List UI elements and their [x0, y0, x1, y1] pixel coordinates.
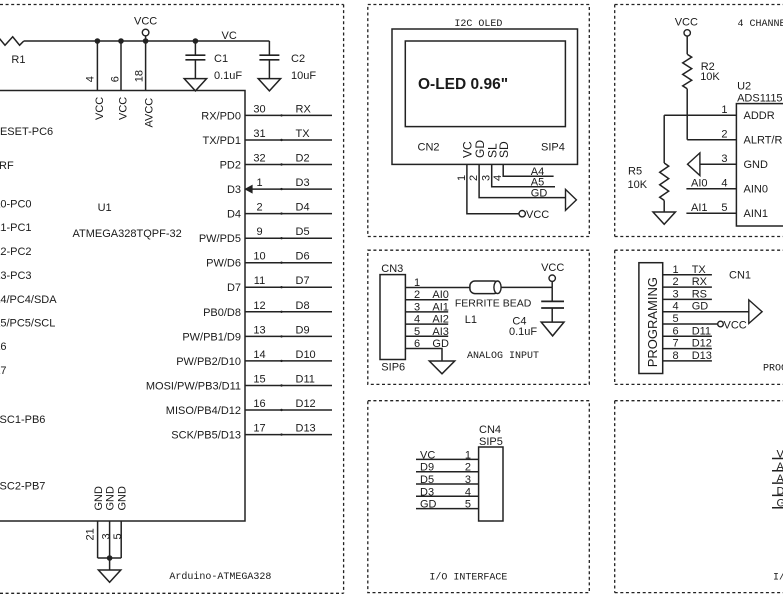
wire CN3 pin3 (AI1)	[405, 311, 448, 313]
wire gnd tie	[98, 557, 122, 559]
wire CN1 pin8 (D13)	[663, 360, 712, 362]
port arrow GD (CN1, right)	[749, 300, 762, 324]
svg-text:D3: D3	[227, 184, 241, 196]
power flag VCC (R2)	[684, 30, 690, 36]
wire CN3 pin1 to ferrite bead	[405, 287, 470, 289]
wire CN2 pin3 (A5)	[492, 164, 555, 186]
svg-text:VC: VC	[222, 30, 237, 42]
svg-text:A1-PC1: A1-PC1	[0, 222, 32, 234]
svg-text:D7: D7	[227, 282, 241, 294]
svg-text:4: 4	[673, 301, 679, 313]
svg-text:4: 4	[492, 175, 504, 181]
wire CN3 pin2 (AI0)	[405, 299, 448, 301]
svg-text:C2: C2	[291, 53, 305, 65]
svg-text:3: 3	[673, 288, 679, 300]
svg-text:D5: D5	[296, 226, 310, 238]
svg-text:CN2: CN2	[418, 142, 440, 154]
svg-text:ADS1115: ADS1115	[737, 92, 782, 104]
svg-text:CN1: CN1	[729, 270, 751, 282]
wire CN3 pin6 (GD) to ground	[405, 349, 442, 362]
svg-text:8: 8	[673, 350, 679, 362]
svg-text:VCC: VCC	[675, 16, 698, 28]
svg-text:AI3: AI3	[432, 326, 449, 338]
wire pin 21 stub (GND)	[97, 521, 99, 558]
wire pin 32 (D2)	[245, 164, 332, 166]
wire pin 12 (D8)	[245, 311, 332, 313]
power flag VCC (top of U1)	[142, 29, 149, 36]
svg-text:MOSI/PW/PB3/D11: MOSI/PW/PB3/D11	[146, 381, 241, 393]
wire CN4 pin2 (D9)	[416, 471, 479, 473]
wire pin 30 (RX)	[245, 114, 332, 116]
svg-text:1: 1	[256, 177, 262, 189]
svg-text:30: 30	[253, 103, 265, 115]
svg-text:GND: GND	[116, 486, 128, 511]
wire R2 to pin2	[686, 89, 688, 140]
wire pin3 (GND)	[700, 163, 737, 165]
connector CN4 body	[479, 447, 503, 521]
wire pin 16 (D12)	[245, 409, 332, 411]
svg-text:RF: RF	[0, 160, 14, 172]
svg-text:SIP4: SIP4	[541, 142, 565, 154]
wire CN2 pin2 (GD)	[479, 164, 565, 197]
svg-text:AI0: AI0	[432, 289, 449, 301]
wire pin 4 stub	[96, 41, 98, 91]
svg-text:Arduino-ATMEGA328: Arduino-ATMEGA328	[169, 571, 271, 583]
wire CN1 pin2 (RX)	[663, 286, 712, 288]
ground (C4)	[541, 322, 564, 336]
svg-text:L1: L1	[465, 314, 477, 326]
wire pin 13 (D9)	[245, 335, 332, 337]
svg-text:PW/PB2/D10: PW/PB2/D10	[176, 356, 241, 368]
svg-text:SIP5: SIP5	[479, 436, 503, 448]
svg-text:R5: R5	[628, 166, 642, 178]
resistor R2	[683, 54, 692, 89]
svg-text:18: 18	[133, 70, 145, 82]
svg-text:A2-PC2: A2-PC2	[0, 246, 32, 258]
svg-text:AI1: AI1	[432, 301, 449, 313]
svg-text:O-LED 0.96": O-LED 0.96"	[418, 76, 508, 93]
svg-text:D4: D4	[296, 202, 310, 214]
svg-text:A7: A7	[0, 365, 6, 377]
wire bead to VCC/C4	[501, 286, 552, 288]
section border 4 CHANNEL ADC (dashed)	[615, 4, 783, 6]
wire pin 11 (D7)	[245, 286, 332, 288]
svg-text:3: 3	[721, 153, 727, 165]
power flag VCC (C4)	[549, 275, 555, 281]
svg-text:ALRT/RDY: ALRT/RDY	[744, 135, 783, 147]
svg-text:D11: D11	[692, 325, 711, 337]
svg-text:RX: RX	[296, 103, 312, 115]
connector CN1 body	[639, 263, 663, 374]
svg-text:10: 10	[253, 251, 265, 263]
wire pin 3 stub (GND)	[109, 521, 111, 558]
svg-text:PD2: PD2	[220, 160, 241, 172]
junction on pin 13 wire	[280, 335, 282, 337]
svg-text:A5: A5	[531, 177, 544, 189]
junction on pin 32 wire	[280, 163, 282, 165]
svg-text:11: 11	[254, 275, 265, 287]
svg-text:PROGRAMING: PROGRAMING	[645, 277, 660, 367]
svg-text:R1: R1	[11, 54, 25, 66]
svg-text:ANALOG INPUT: ANALOG INPUT	[467, 351, 539, 362]
svg-text:AIN0: AIN0	[744, 184, 768, 196]
junction on pin 1 wire	[280, 188, 282, 190]
svg-text:2: 2	[465, 462, 471, 474]
svg-text:D6: D6	[296, 251, 310, 263]
svg-text:U1: U1	[98, 202, 112, 214]
wire CN3 pin4 (AI2)	[405, 323, 448, 325]
junction on pin 15 wire	[280, 384, 282, 386]
svg-text:21: 21	[85, 528, 97, 540]
wire CN4 pin4 (D3)	[416, 495, 479, 497]
junction on pin 11 wire	[280, 286, 282, 288]
svg-text:TX: TX	[692, 264, 707, 276]
svg-text:VC: VC	[420, 449, 435, 461]
section border I/O INTERFACE (dashed)	[368, 401, 590, 593]
wire pin4 (AIN0)	[686, 188, 736, 190]
svg-text:OSC2-PB7: OSC2-PB7	[0, 481, 45, 493]
wire CN4 pin1 (VC)	[416, 458, 479, 460]
svg-text:3: 3	[465, 474, 471, 486]
wire pin 1 (D3)	[245, 188, 332, 190]
ferrite bead L1	[470, 281, 499, 294]
ic U1 body (ATMEGA328, left edge off-canvas)	[0, 91, 245, 522]
svg-text:10K: 10K	[700, 71, 720, 83]
svg-text:GND: GND	[744, 159, 769, 171]
svg-text:4: 4	[414, 314, 420, 326]
svg-text:D3: D3	[296, 177, 310, 189]
svg-text:CN4: CN4	[479, 424, 501, 436]
wire CN1 pin1 (TX)	[663, 274, 712, 276]
svg-text:31: 31	[253, 128, 265, 140]
svg-text:5: 5	[465, 499, 471, 511]
svg-text:A5/PC5/SCL: A5/PC5/SCL	[0, 318, 55, 330]
svg-text:C1: C1	[214, 53, 228, 65]
wire pin 9 (D5)	[245, 237, 332, 239]
ground (R5)	[663, 200, 665, 212]
wire pin 15 (D11)	[245, 385, 332, 387]
svg-text:U2: U2	[737, 80, 751, 92]
junction on pin 30 wire	[280, 114, 282, 116]
svg-text:D3: D3	[420, 486, 434, 498]
svg-text:AIN1: AIN1	[744, 208, 768, 220]
svg-text:SCK/PB5/D13: SCK/PB5/D13	[171, 430, 241, 442]
junction on pin 9 wire	[280, 237, 282, 239]
svg-text:4: 4	[85, 76, 97, 82]
svg-text:D10: D10	[296, 349, 316, 361]
svg-text:GD: GD	[692, 301, 709, 313]
capacitor C2	[268, 41, 270, 55]
svg-text:A5: A5	[777, 473, 783, 485]
svg-text:ADDR: ADDR	[744, 110, 775, 122]
wire pin 5 stub (GND)	[120, 521, 122, 558]
svg-text:D5: D5	[420, 474, 434, 486]
svg-text:D9: D9	[296, 324, 310, 336]
wire D2 (right edge, clipped)	[772, 494, 783, 496]
wire CN2 pin1 to VCC	[467, 164, 519, 213]
svg-text:3: 3	[481, 175, 493, 181]
section border I/O 2 (dashed)	[615, 400, 783, 402]
svg-text:PB0/D8: PB0/D8	[203, 307, 241, 319]
svg-text:A4: A4	[531, 166, 544, 178]
svg-text:5: 5	[414, 326, 420, 338]
svg-text:10uF: 10uF	[291, 70, 316, 82]
svg-text:TX/PD1: TX/PD1	[202, 135, 241, 147]
svg-text:D2: D2	[777, 485, 783, 497]
svg-text:A4/PC4/SDA: A4/PC4/SDA	[0, 294, 57, 306]
svg-text:6: 6	[109, 76, 121, 82]
resistor R1 (reset pull-up, zigzag)	[0, 37, 24, 45]
svg-text:GD: GD	[420, 499, 437, 511]
junction at VCC flag	[143, 38, 149, 44]
input arrow on pin 1 (D3)	[246, 186, 253, 193]
svg-text:6: 6	[414, 338, 420, 350]
svg-text:SD: SD	[497, 141, 511, 158]
svg-text:6: 6	[673, 325, 679, 337]
svg-text:12: 12	[253, 300, 265, 312]
svg-text:AI0: AI0	[691, 178, 708, 190]
wire A5 (right edge, clipped)	[772, 482, 783, 484]
svg-text:PW/PB1/D9: PW/PB1/D9	[182, 331, 241, 343]
wire pin 10 (D6)	[245, 262, 332, 264]
ground (CN3 pin6)	[429, 361, 454, 374]
svg-text:GD: GD	[531, 187, 548, 199]
svg-text:A6: A6	[0, 341, 6, 353]
svg-text:4 CHANNEL ADC: 4 CHANNEL ADC	[738, 19, 783, 30]
wire A4 (right edge, clipped)	[772, 470, 783, 472]
port arrow GD (right)	[566, 189, 577, 210]
port arrow (GND input, left)	[688, 153, 700, 176]
svg-text:VCC: VCC	[724, 319, 747, 331]
svg-text:16: 16	[253, 398, 265, 410]
svg-text:FERRITE BEAD: FERRITE BEAD	[455, 298, 532, 310]
svg-text:A0-PC0: A0-PC0	[0, 199, 32, 211]
section border Arduino-ATMEGA328 (dashed)	[0, 4, 344, 6]
ground (C2)	[258, 79, 280, 91]
svg-text:MISO/PB4/D12: MISO/PB4/D12	[166, 405, 241, 417]
junction at pin4 stub	[95, 38, 101, 44]
svg-text:2: 2	[721, 129, 727, 141]
junction at gnd tie	[107, 555, 113, 561]
svg-text:5: 5	[673, 313, 679, 325]
svg-text:D12: D12	[296, 398, 316, 410]
svg-text:32: 32	[253, 153, 265, 165]
wire VCC rail	[24, 40, 270, 42]
wire pin 18 stub	[145, 41, 147, 91]
wire CN1 pin7 (D12)	[663, 348, 712, 350]
svg-text:RESET-PC6: RESET-PC6	[0, 126, 53, 138]
wire pin 14 (D10)	[245, 360, 332, 362]
junction at C1	[193, 38, 199, 44]
svg-text:4: 4	[721, 178, 727, 190]
svg-text:TX: TX	[296, 128, 311, 140]
svg-text:VCC: VCC	[134, 16, 157, 28]
junction on pin 17 wire	[280, 433, 282, 435]
svg-text:13: 13	[253, 324, 265, 336]
junction on pin 16 wire	[280, 409, 282, 411]
svg-text:D11: D11	[296, 374, 315, 386]
oled screen (inner rect)	[405, 41, 565, 127]
svg-text:PROGRAMING: PROGRAMING	[763, 364, 783, 375]
svg-text:AVCC: AVCC	[143, 98, 155, 128]
svg-text:2: 2	[673, 276, 679, 288]
svg-text:1: 1	[456, 175, 468, 181]
svg-text:RX/PD0: RX/PD0	[201, 110, 241, 122]
svg-text:D4: D4	[227, 209, 241, 221]
svg-text:PW/D6: PW/D6	[206, 258, 241, 270]
svg-text:4: 4	[465, 486, 471, 498]
junction at pin6 stub	[118, 38, 124, 44]
capacitor C1	[194, 41, 196, 55]
junction on pin 12 wire	[280, 311, 282, 313]
wire CN1 pin3 (RS)	[663, 298, 712, 300]
svg-text:1: 1	[721, 104, 727, 116]
svg-text:3: 3	[100, 533, 112, 539]
svg-text:I/O INTERFACE: I/O INTERFACE	[429, 572, 507, 584]
svg-text:RX: RX	[692, 276, 708, 288]
svg-text:15: 15	[253, 374, 265, 386]
svg-text:2: 2	[256, 202, 262, 214]
wire CN4 pin3 (D5)	[416, 483, 479, 485]
svg-text:VCC: VCC	[526, 209, 549, 221]
ground (C1)	[184, 79, 206, 91]
connector CN3 body	[380, 275, 405, 360]
wire GD (right edge, clipped)	[772, 507, 783, 509]
wire pin5 (AIN1)	[686, 212, 736, 214]
junction on pin 31 wire	[280, 139, 282, 141]
svg-text:VCC: VCC	[118, 97, 130, 120]
junction on pin 14 wire	[280, 360, 282, 362]
svg-text:OSC1-PB6: OSC1-PB6	[0, 414, 45, 426]
svg-text:7: 7	[673, 338, 679, 350]
junction on pin 2 wire	[280, 212, 282, 214]
oled module CN2 outer body	[392, 29, 578, 164]
svg-text:A4: A4	[777, 461, 783, 473]
svg-text:10K: 10K	[628, 179, 648, 191]
svg-text:17: 17	[253, 423, 265, 435]
power flag VCC (CN1)	[718, 321, 724, 327]
wire CN1 pin4 (GD) to port arrow	[663, 311, 749, 313]
wire CN4 pin5 (GD)	[416, 508, 479, 510]
svg-text:CN3: CN3	[381, 263, 403, 275]
svg-text:ATMEGA328TQPF-32: ATMEGA328TQPF-32	[73, 228, 182, 240]
wire pin 2 (D4)	[245, 213, 332, 215]
svg-text:AI2: AI2	[432, 314, 449, 326]
wire CN1 pin6 (D11)	[663, 335, 712, 337]
wire VC (right edge, clipped)	[772, 458, 783, 460]
svg-text:D2: D2	[296, 153, 310, 165]
svg-text:D12: D12	[692, 338, 712, 350]
wire pin 17 (D13)	[245, 434, 332, 436]
wire ADDR to R5	[663, 115, 665, 163]
ic U2 body (ADS1115, clipped right)	[736, 104, 783, 226]
section border I2C OLED (dashed)	[368, 5, 590, 237]
wire CN1 pin5 to VCC	[663, 323, 718, 325]
svg-text:1: 1	[414, 277, 420, 289]
svg-text:2: 2	[468, 175, 480, 181]
ground (U1)	[109, 558, 111, 570]
svg-text:SIP6: SIP6	[381, 362, 405, 374]
svg-text:GND: GND	[105, 486, 117, 511]
svg-text:D9: D9	[420, 462, 434, 474]
svg-text:I/O INTERFACE: I/O INTERFACE	[773, 572, 783, 584]
resistor R5	[660, 163, 669, 200]
section border PROGRAMING (dashed)	[615, 249, 783, 251]
svg-text:D13: D13	[692, 350, 712, 362]
svg-text:VCC: VCC	[94, 97, 106, 120]
svg-text:0.1uF: 0.1uF	[214, 70, 242, 82]
svg-text:PW/PD5: PW/PD5	[199, 233, 241, 245]
section border ANALOG INPUT (dashed)	[368, 250, 590, 384]
power flag VCC (CN2)	[519, 211, 525, 217]
svg-text:0.1uF: 0.1uF	[509, 326, 537, 338]
svg-text:3: 3	[414, 301, 420, 313]
junction on pin 10 wire	[280, 262, 282, 264]
svg-text:5: 5	[721, 202, 727, 214]
svg-text:2: 2	[414, 289, 420, 301]
svg-text:AI1: AI1	[691, 202, 708, 214]
svg-text:RS: RS	[692, 288, 707, 300]
wire pin 31 (TX)	[245, 139, 332, 141]
capacitor C4	[551, 287, 553, 301]
wire CN3 pin5 (AI3)	[405, 335, 448, 337]
svg-text:D7: D7	[296, 275, 310, 287]
svg-text:1: 1	[465, 449, 471, 461]
wire pin 6 stub	[120, 41, 122, 91]
svg-text:D13: D13	[296, 423, 316, 435]
svg-text:VCC: VCC	[541, 262, 564, 274]
svg-text:5: 5	[112, 533, 124, 539]
svg-text:GD: GD	[432, 338, 449, 350]
wire CN2 pin4 (A4)	[503, 164, 553, 176]
svg-text:GD: GD	[777, 498, 783, 510]
svg-text:9: 9	[256, 226, 262, 238]
svg-text:14: 14	[253, 349, 265, 361]
svg-text:GND: GND	[93, 486, 105, 511]
wire pin1 (ADDR)	[664, 114, 736, 116]
svg-text:VC: VC	[777, 449, 783, 461]
svg-text:1: 1	[673, 264, 679, 276]
svg-text:D8: D8	[296, 300, 310, 312]
svg-text:A3-PC3: A3-PC3	[0, 270, 32, 282]
